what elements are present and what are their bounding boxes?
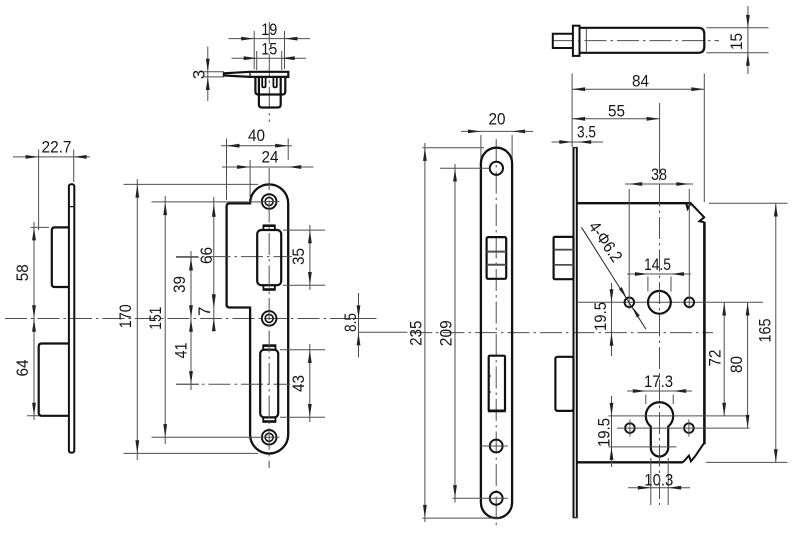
dim 22.7 line (13, 156, 90, 158)
screw hole upper-right (685, 298, 695, 308)
svg-text:24: 24 (262, 147, 279, 166)
top screw hole (262, 194, 277, 209)
lock body top-right break chamfer (686, 203, 704, 222)
dim 84 line (572, 88, 704, 90)
dim 3 ext lines (203, 71, 225, 73)
dim 35 arrows (308, 230, 312, 243)
label 4-dia6.2 leader line (582, 227, 646, 329)
upper slot centerline (176, 256, 292, 258)
svg-text:41: 41 (172, 343, 191, 359)
dim 55 line (572, 118, 660, 120)
svg-text:35: 35 (289, 248, 308, 265)
spindle cylinder tick (585, 29, 587, 52)
label 4-dia6.2 leader arrows (619, 287, 627, 298)
dim 3 line (207, 47, 209, 102)
svg-text:15: 15 (261, 40, 277, 59)
dim 15 arrows (spindle) (746, 15, 750, 28)
lock body bottom-right break chamfer (683, 444, 705, 463)
dim 40 arrows (227, 144, 240, 148)
lock body bottom edge (577, 461, 683, 463)
svg-text:39: 39 (170, 276, 189, 293)
dim 40 ext lines (226, 139, 228, 201)
svg-text:20: 20 (489, 110, 506, 129)
latch window inner lines (487, 251, 507, 253)
spindle square shaft (553, 34, 573, 48)
dim 209 arrows (453, 169, 457, 182)
dim 55 arrows (572, 117, 585, 121)
upper slot (latch opening) (257, 230, 281, 285)
dim 64 arrows (32, 319, 36, 332)
faceplate side caps (573, 147, 578, 149)
upper holes centerline (577, 301, 763, 303)
dim 39/41 line (190, 251, 192, 390)
dim 19.5 upper line (611, 283, 613, 356)
dim 38 line (625, 183, 693, 185)
middle screw hole tick (481, 445, 508, 447)
view A centerline (vertical) (268, 22, 270, 122)
dim 10.3 ext lines (650, 458, 652, 505)
dim 22.7 arrows (26, 155, 39, 159)
svg-text:40: 40 (248, 126, 265, 145)
dim 151 ext lines (152, 201, 263, 203)
dim 20 arrows (468, 130, 481, 134)
lower slot bottom ear (263, 417, 275, 421)
lock faceplate side view (573, 148, 575, 518)
dim 15 ext lines (spindle) (707, 27, 769, 29)
dim 55 ext line (659, 103, 661, 152)
dim 14.5 arrows (635, 272, 648, 276)
dim 14.5 line (627, 273, 691, 275)
middle screw hole (262, 311, 277, 326)
dim 165 ext lines (709, 202, 788, 204)
dim 15 line (232, 57, 307, 59)
svg-text:14.5: 14.5 (644, 255, 671, 274)
svg-text:58: 58 (13, 264, 32, 281)
dim 170 arrows (135, 185, 139, 198)
dim 40 line (221, 145, 292, 147)
strike plate side view plate (69, 184, 74, 452)
bottom screw hole (262, 430, 277, 445)
svg-text:151: 151 (146, 307, 165, 330)
dim 58 line (33, 222, 35, 319)
dim 19 arrows (241, 37, 254, 41)
dim 66 arrows (212, 204, 216, 217)
spindle centerline (552, 40, 719, 42)
dim 14.5 ext lines (647, 277, 649, 292)
cylinder center ext line (609, 415, 749, 417)
dim 17.3 arrows (633, 389, 646, 393)
faceplate deadbolt window (489, 356, 505, 411)
dim 165 line (775, 203, 777, 462)
dim 10.3 line (628, 487, 690, 489)
dim 15 ext lines (256, 51, 258, 70)
screw hole upper-left (625, 298, 635, 308)
dim 41 arrows (189, 319, 193, 332)
dim 15 arrows (244, 56, 257, 60)
view B / view C shared centerline (horizontal) (5, 318, 340, 320)
dim 19.5 lower ext line (609, 446, 677, 448)
svg-text:3: 3 (190, 70, 209, 79)
dim 209 top ext line (440, 167, 490, 169)
spindle cylinder (580, 28, 705, 53)
latch bolt (side view) (554, 237, 574, 279)
lower holes line (617, 427, 750, 429)
svg-text:64: 64 (13, 360, 32, 377)
dim 151 arrows (163, 202, 167, 215)
dim 58 arrows (32, 227, 36, 240)
dim 24 line (222, 166, 314, 168)
upper slot top ear (263, 226, 275, 230)
svg-text:165: 165 (756, 319, 775, 343)
dim 80 line (747, 302, 749, 428)
dim 15 line (spindle) (747, 6, 749, 74)
svg-text:43: 43 (289, 375, 308, 392)
prong left (top view) (262, 77, 265, 88)
dim 35 line (309, 225, 311, 290)
dim 3.5 line (552, 141, 604, 143)
view E centerline (vertical) (659, 152, 661, 505)
svg-text:15: 15 (727, 33, 746, 50)
svg-text:235: 235 (407, 321, 426, 346)
dim 39 ext line (176, 256, 199, 258)
dim 19.5 lower line (611, 396, 613, 467)
dim 3.5 arrows (559, 140, 572, 144)
strike plate top view bend tick (249, 72, 251, 77)
dim 19 line (229, 38, 311, 40)
lower slot centerline (176, 383, 290, 385)
dim 43 ext lines (280, 349, 325, 351)
dim 151 line (164, 196, 166, 444)
dim 20 line (461, 130, 533, 132)
dim 58 ext line (31, 226, 50, 228)
svg-text:55: 55 (608, 102, 625, 121)
svg-text:80: 80 (727, 356, 746, 373)
svg-text:3.5: 3.5 (577, 122, 596, 141)
svg-text:22.7: 22.7 (42, 138, 72, 157)
bottom screw hole tick (261, 436, 280, 438)
svg-text:170: 170 (116, 304, 135, 328)
dim 3 arrows (206, 59, 210, 72)
strike plate side view bend notch (69, 206, 74, 208)
dim 10.3 arrows (638, 486, 651, 490)
dim 24 arrows (237, 165, 250, 169)
dim 209 bottom ext line (453, 497, 508, 499)
dim 19.5 lower arrows (610, 403, 614, 416)
lock body right edge (703, 222, 706, 444)
dim 20 ext lines (480, 135, 482, 161)
dim 43 line (309, 344, 311, 422)
view D centerline (vertical) (495, 139, 497, 527)
dim 72 line (723, 302, 725, 416)
dim 170 ext lines (124, 183, 259, 185)
screw hole lower-left (625, 423, 635, 433)
upper slot bottom ear (263, 285, 275, 289)
lock faceplate outline (481, 148, 512, 518)
dim 8.5 arrows (357, 305, 361, 318)
screw hole lower ticks (629, 420, 631, 437)
faceplate bottom screw hole (490, 492, 503, 505)
top screw hole tick (261, 201, 280, 203)
dim 7 arrows (212, 295, 216, 308)
dim 66 line (213, 197, 215, 331)
dim 64 ext line (27, 415, 45, 417)
screw hole lower-right (684, 423, 694, 433)
lock centerline (horizontal) (410, 332, 713, 334)
dim 84 arrows (572, 87, 585, 91)
strike plate front view outline (227, 184, 289, 453)
view C centerline (vertical) (268, 168, 270, 468)
dim 38 ext lines (628, 189, 630, 309)
dim 22.7 ext lines (38, 150, 40, 231)
svg-text:66: 66 (197, 247, 216, 264)
svg-text:72: 72 (706, 350, 725, 367)
lock body top edge (577, 202, 691, 204)
dim 80 arrows (746, 303, 750, 316)
svg-text:19.5: 19.5 (591, 302, 610, 331)
dim 8.5 upper ref line (338, 318, 377, 320)
dim 19 ext lines (253, 31, 255, 69)
svg-text:10.3: 10.3 (644, 471, 673, 490)
svg-text:8.5: 8.5 (341, 313, 360, 332)
svg-text:19: 19 (261, 20, 277, 39)
euro cylinder hole (646, 402, 673, 456)
dim 84 ext lines (571, 74, 573, 148)
dim 209 line (454, 164, 456, 503)
spindle flange (573, 26, 580, 56)
dim 19.5 upper arrows (610, 289, 614, 302)
dim 8.5 lower ref line (359, 331, 408, 333)
deadbolt (side view) (555, 357, 573, 411)
latch dust box (side view) (52, 227, 69, 287)
dim 170 line (136, 179, 138, 460)
faceplate middle screw hole (490, 440, 503, 453)
lower slot top ear (263, 345, 275, 349)
dim 72 arrows (722, 303, 726, 316)
dust box outer (top view) (255, 77, 285, 95)
strike plate top view outline (224, 72, 288, 77)
dim 235 line (424, 143, 426, 522)
follower hole (648, 291, 671, 314)
dim 64 line (33, 319, 35, 421)
dim 43 arrows (308, 350, 312, 363)
dim 38 arrows (629, 182, 642, 186)
dim 17.3 ext lines (645, 395, 647, 405)
prong right (top view) (273, 77, 276, 88)
svg-text:84: 84 (632, 72, 649, 91)
dim 165 arrows (774, 204, 778, 217)
faceplate top screw hole (490, 162, 503, 175)
dim 39 arrows (189, 258, 193, 271)
dust box inner (top view) (259, 77, 281, 108)
svg-text:209: 209 (437, 320, 456, 346)
deadbolt dust box (side view) (39, 344, 69, 416)
svg-text:7: 7 (195, 307, 214, 316)
dim 235 arrows (423, 148, 427, 161)
lower slot (deadbolt opening) (260, 350, 278, 418)
svg-text:19.5: 19.5 (595, 418, 614, 447)
faceplate latch window (487, 237, 507, 279)
latch bolt inner lines (554, 249, 574, 251)
dim 17.3 line (627, 390, 692, 392)
dim 35 ext lines (283, 229, 325, 231)
dim 24 ext line (249, 160, 251, 197)
svg-text:17.3: 17.3 (644, 372, 673, 391)
dim 235 ext lines (422, 147, 484, 149)
dim 41 ext line (176, 383, 199, 385)
dim 8.5 line (358, 293, 360, 358)
